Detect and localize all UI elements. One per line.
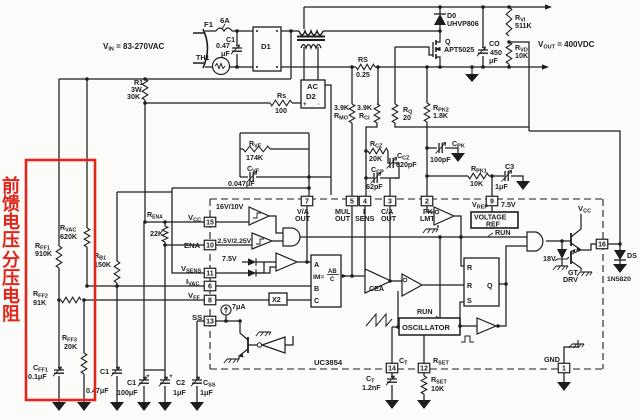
svg-text:AC: AC xyxy=(307,82,319,91)
wire AND2 out xyxy=(546,240,571,242)
ground CFF1 xyxy=(52,402,66,411)
oscillator block xyxy=(399,318,460,335)
svg-text:100pF: 100pF xyxy=(430,156,451,164)
ground PKLMT comp xyxy=(426,228,438,230)
wire pin4 internal xyxy=(364,206,366,272)
resistor RS 0.25 shunt xyxy=(356,64,375,70)
pin 10 ENA xyxy=(204,240,216,250)
capacitor C1 input 0.47uF xyxy=(232,48,242,51)
wire RENA top lead xyxy=(164,222,166,226)
wire pin5 internal xyxy=(351,206,353,276)
arrow mult out xyxy=(342,274,347,278)
resistor RMO 3.9K xyxy=(349,104,355,123)
wire CO top lead xyxy=(482,7,484,47)
svg-text:18V: 18V xyxy=(543,255,556,263)
junction CPK tap xyxy=(425,146,429,150)
svg-text:RUN: RUN xyxy=(495,229,510,237)
resistor RB1 150K xyxy=(114,261,120,283)
svg-text:62pF: 62pF xyxy=(366,183,383,191)
pin 9 VREF xyxy=(486,196,498,206)
svg-text:D1: D1 xyxy=(261,42,272,51)
junction CT node xyxy=(396,325,400,329)
wire RQ bottom to gate rail xyxy=(395,123,529,127)
wire gate drive rail xyxy=(529,131,620,244)
svg-text:DRV: DRV xyxy=(563,276,578,284)
capacitor C3 1uF xyxy=(505,171,508,181)
wire node to VAC sense bus xyxy=(290,31,292,79)
svg-text:1μF: 1μF xyxy=(200,389,213,397)
svg-text:CEA: CEA xyxy=(369,285,384,293)
svg-text:OSCILLATOR: OSCILLATOR xyxy=(402,323,450,332)
wire secondary right lead to AC D2 xyxy=(317,47,319,80)
svg-text:电: 电 xyxy=(2,211,20,232)
pin 4 ISENS xyxy=(359,196,371,206)
pin 11 VSENS xyxy=(204,268,216,278)
zener diode 18V xyxy=(557,249,567,259)
svg-text:5: 5 xyxy=(350,199,354,206)
svg-text:7.5V: 7.5V xyxy=(222,255,237,263)
wire VSENS vertical xyxy=(172,188,204,273)
wire RFF1 to FF1 node xyxy=(58,268,60,300)
svg-text:16: 16 xyxy=(598,242,606,249)
wire RCI jog xyxy=(366,123,377,196)
junction bus3 RVAC xyxy=(85,77,89,81)
capacitor C1b 100uF xyxy=(139,380,149,383)
svg-text:2: 2 xyxy=(425,199,429,206)
fuse F1 xyxy=(216,28,232,31)
svg-text:6A: 6A xyxy=(220,16,230,25)
svg-text:APT5025: APT5025 xyxy=(444,46,474,54)
bridge rectifier D1 xyxy=(253,27,281,71)
wire divider midpoint feed xyxy=(509,42,529,131)
wire RVAC top xyxy=(86,79,88,228)
svg-text:7μA: 7μA xyxy=(232,303,246,311)
wire RSET lead xyxy=(423,373,425,376)
wire RCI top xyxy=(377,67,378,104)
rs latch xyxy=(464,258,499,306)
svg-text:Q: Q xyxy=(487,282,493,290)
svg-text:ENA: ENA xyxy=(184,241,201,250)
junction run pklmt xyxy=(459,235,463,239)
svg-text:压: 压 xyxy=(2,268,20,288)
svg-text:7: 7 xyxy=(305,199,309,206)
svg-text:压: 压 xyxy=(2,230,20,250)
wire fuse to C1 node xyxy=(232,30,253,32)
resistor RFF3 20K xyxy=(81,353,87,374)
svg-text:20: 20 xyxy=(403,114,411,122)
wire pin7 vertical xyxy=(308,133,310,196)
ground RFF3 xyxy=(77,402,91,411)
svg-text:C: C xyxy=(314,297,319,305)
junction RS right xyxy=(376,65,380,69)
resistor Rs 100 xyxy=(270,100,292,106)
wire RENA bottom xyxy=(164,242,166,245)
wire pin7 internal xyxy=(306,206,308,262)
wire CVF row right xyxy=(256,176,309,178)
capacitor CPK 100pF xyxy=(439,143,442,153)
wire RUN rail xyxy=(300,236,527,238)
diode ref lower xyxy=(248,269,256,276)
wire secondary left lead to AC D2 xyxy=(303,47,305,80)
svg-text:10K: 10K xyxy=(431,385,445,393)
junction D0 bottom xyxy=(438,29,442,33)
pin 8 VFF xyxy=(204,295,216,305)
capacitor CCP 62pF xyxy=(374,173,377,183)
svg-text:174K: 174K xyxy=(246,154,264,162)
svg-text:+: + xyxy=(303,102,307,108)
ground C1a xyxy=(110,402,124,411)
svg-text:RUN: RUN xyxy=(417,308,432,316)
svg-text:100: 100 xyxy=(275,107,287,115)
svg-text:C1: C1 xyxy=(100,368,109,376)
wire TH1 to D1 xyxy=(229,66,253,68)
wire plug to fuse F1 xyxy=(210,30,216,32)
junction S osc xyxy=(458,324,462,328)
svg-text:511K: 511K xyxy=(515,22,533,30)
pin 2 PKLMT xyxy=(421,196,433,206)
wire RVAC to IAC line xyxy=(86,247,88,286)
wire SS internal xyxy=(216,320,240,322)
ground SS aux xyxy=(259,331,271,333)
wire D1 plus output to inductor xyxy=(281,30,299,32)
svg-text:15: 15 xyxy=(206,220,214,227)
svg-text:VOLTAGE: VOLTAGE xyxy=(474,215,507,222)
svg-text:150K: 150K xyxy=(94,261,112,269)
wire CVF row left xyxy=(240,176,248,178)
svg-text:·: · xyxy=(318,102,320,108)
resistor RFF1 910K xyxy=(56,246,62,268)
junction CEA out pin3 xyxy=(388,279,392,283)
wire C3 to gnd xyxy=(511,176,523,181)
transistor QP driver PNP xyxy=(570,251,572,264)
pin 5 MULOUT xyxy=(346,196,358,206)
junction DS node xyxy=(618,242,622,246)
wire RB1 top stub xyxy=(116,192,118,261)
svg-text:100μF: 100μF xyxy=(117,389,138,397)
svg-text:REF: REF xyxy=(486,222,500,229)
capacitor C2 1uF xyxy=(160,380,170,383)
wire CCZ down xyxy=(394,163,400,178)
wire current source stub xyxy=(225,315,227,321)
ground SS emitter xyxy=(227,358,239,360)
svg-text:电: 电 xyxy=(2,285,20,306)
wire loop left vertical xyxy=(239,133,241,177)
mosfet Q APT5025 xyxy=(436,31,440,42)
svg-text:馈: 馈 xyxy=(2,193,20,214)
svg-text:OUT: OUT xyxy=(295,215,311,223)
junction CCP tap xyxy=(364,176,368,180)
svg-text:7.5V: 7.5V xyxy=(501,201,516,209)
wire 7p5 to diodes xyxy=(242,261,248,263)
wire FF1 node down to CFF1 xyxy=(58,300,60,369)
junction RVAC IAC xyxy=(85,284,89,288)
wire CSS hang xyxy=(196,321,198,380)
wire 400V output bus xyxy=(304,6,546,8)
wire VCC collector xyxy=(580,214,582,218)
junction pin9 vref xyxy=(490,174,494,178)
ground C3 xyxy=(516,181,530,190)
svg-text:OUT: OUT xyxy=(381,215,397,223)
svg-text:阻: 阻 xyxy=(2,304,20,324)
svg-text:3.9K: 3.9K xyxy=(334,104,350,112)
wire CT external xyxy=(391,373,393,378)
svg-text:0.47μF: 0.47μF xyxy=(86,387,109,395)
svg-text:16V/10V: 16V/10V xyxy=(216,203,244,211)
pin 6 IVAC xyxy=(204,281,216,291)
wire UVLO to AND1 xyxy=(269,216,283,233)
svg-text:C3: C3 xyxy=(505,163,514,171)
wire CT node xyxy=(392,326,399,328)
ground CPK xyxy=(451,153,465,162)
svg-text:B: B xyxy=(314,285,319,293)
svg-text:Rs: Rs xyxy=(277,92,286,100)
svg-text:0.47: 0.47 xyxy=(216,42,230,50)
pin 12 RSET xyxy=(418,363,430,373)
resistor RFF2 91K xyxy=(61,297,81,303)
wire RSET gnd xyxy=(423,394,425,400)
ground C1b xyxy=(137,402,151,411)
svg-text:RS: RS xyxy=(358,56,368,64)
wire latch Q out xyxy=(499,283,506,285)
svg-text:Q: Q xyxy=(445,38,451,46)
svg-text:前: 前 xyxy=(2,175,20,196)
wire pin3 internal xyxy=(389,206,391,281)
junction VCC C1b xyxy=(143,220,147,224)
wire gnd pin down xyxy=(563,373,565,382)
pin 1 GND xyxy=(558,363,570,373)
ground chip flag xyxy=(572,343,584,345)
svg-text:3: 3 xyxy=(388,199,392,206)
svg-text:+: + xyxy=(169,373,173,380)
resistor R1 3W 30K xyxy=(142,79,148,100)
wire DS gnd lead xyxy=(619,260,621,264)
wire VSENS to VEA xyxy=(216,267,276,273)
junction RB1 IAC xyxy=(115,284,119,288)
resistor RSET 10K xyxy=(421,376,427,394)
wire run to latch R top xyxy=(461,237,464,266)
svg-text:30K: 30K xyxy=(127,93,141,101)
aux supply box AC D2 xyxy=(301,80,325,108)
svg-text:分: 分 xyxy=(2,250,20,270)
junction RS left xyxy=(350,65,354,69)
capacitor C1a 0.47uF xyxy=(112,370,122,373)
ground at bus2 xyxy=(471,67,473,74)
junction RPK2 top xyxy=(425,65,429,69)
svg-text:1.8K: 1.8K xyxy=(433,112,449,120)
wire CSS gnd xyxy=(196,386,198,402)
clock pulse symbol xyxy=(461,336,474,342)
wire pin9 internal xyxy=(491,206,493,212)
wire D1 minus output bus2 start xyxy=(281,66,352,68)
wire VAOUT stub to aux xyxy=(309,176,331,178)
diode D0 UHVP806 xyxy=(434,13,446,15)
junction q out xyxy=(504,282,508,286)
junction CO bottom xyxy=(481,65,485,69)
svg-text:μF: μF xyxy=(489,57,498,65)
resistor RPK1 10K xyxy=(468,173,489,179)
inverter SS xyxy=(257,343,261,347)
wire pin16 to DS node xyxy=(608,243,620,245)
junction RVD bottom xyxy=(507,65,511,69)
multiplier block xyxy=(311,255,341,307)
wire ena internal xyxy=(216,244,252,246)
svg-text:6: 6 xyxy=(208,284,212,291)
wire PWM out to latch R xyxy=(422,284,464,286)
svg-text:2.5V/2.25V: 2.5V/2.25V xyxy=(218,238,252,245)
svg-text:9: 9 xyxy=(490,199,494,206)
wire C1 bottom lead xyxy=(236,54,238,67)
ground RSET xyxy=(417,400,431,409)
svg-text:1N5820: 1N5820 xyxy=(607,276,631,283)
svg-text:R: R xyxy=(467,282,473,290)
capacitor CSS 1uF xyxy=(192,380,202,383)
svg-text:1.2nF: 1.2nF xyxy=(362,384,381,392)
resistor RVI 511K xyxy=(506,7,512,36)
svg-text:1μF: 1μF xyxy=(173,389,186,397)
wire CPK to gnd xyxy=(445,148,458,153)
wire CT gnd xyxy=(391,385,393,400)
and gate A1 (UVLO/ENA) xyxy=(283,228,300,246)
wire comp to pin3 xyxy=(389,178,391,196)
ground CSS xyxy=(190,402,204,411)
wire plug to TH1 xyxy=(211,66,212,68)
svg-text:UC3854: UC3854 xyxy=(314,358,343,367)
capacitor CVF 0.047uF xyxy=(250,172,253,182)
svg-text:D0: D0 xyxy=(447,12,456,20)
wire osc to buffer xyxy=(460,325,477,327)
wire CFF1 to gnd xyxy=(58,376,60,402)
wire RFF3 to gnd xyxy=(83,374,85,402)
junction RCZ tap xyxy=(364,149,368,153)
wire bus2 right segment xyxy=(375,66,543,68)
AC plug symbol xyxy=(203,29,208,68)
wire Rs to AC D2 box xyxy=(292,102,301,104)
UC3854 IC dashed boundary xyxy=(210,198,603,200)
resistor RPK2 1.8K xyxy=(424,103,430,122)
wire RQ top xyxy=(394,47,396,104)
D1 terminal marks xyxy=(256,30,258,32)
wire inductor to switch node xyxy=(323,30,440,32)
pin 3 CAOUT xyxy=(384,196,396,206)
wire bus3 rectified VAC sense xyxy=(59,78,291,80)
wire VEA out to multiplier xyxy=(297,261,311,263)
ground DS xyxy=(613,264,627,273)
sawtooth waveform symbol xyxy=(366,314,392,326)
junction Q source bus2 xyxy=(438,65,442,69)
junction gnd bus2 xyxy=(470,65,474,69)
wire RPK2 to pin2 xyxy=(426,122,428,196)
junction Rs tap xyxy=(143,101,147,105)
svg-text:14: 14 xyxy=(388,366,396,373)
resistor RENA 22K xyxy=(162,226,168,242)
wire RVF leads xyxy=(240,148,243,150)
run pointer tick xyxy=(488,233,493,237)
wire emitters node xyxy=(581,244,596,250)
run osc tick xyxy=(436,316,440,319)
svg-text:LMT: LMT xyxy=(420,215,435,223)
svg-text:450: 450 xyxy=(490,49,502,57)
wire VCC line to pin15 xyxy=(145,221,204,223)
svg-text:μF: μF xyxy=(221,50,230,58)
wire CEA out to PWM xyxy=(391,280,402,282)
comparator PKLMT xyxy=(434,207,454,225)
junction zener tap xyxy=(560,239,564,243)
svg-text:1: 1 xyxy=(562,366,566,373)
wire zener lead xyxy=(561,241,563,249)
junction VSENS rail pin7 xyxy=(307,186,311,190)
svg-text:C: C xyxy=(330,277,335,283)
svg-text:R: R xyxy=(467,264,473,272)
svg-text:0.1μF: 0.1μF xyxy=(28,373,47,381)
junction CO top xyxy=(481,5,485,9)
buffer clock xyxy=(477,318,496,334)
resistor RQ 20 gate xyxy=(392,104,398,123)
svg-text:8: 8 xyxy=(208,298,212,305)
wire RPK1 to C3 node xyxy=(489,175,504,177)
svg-text:12: 12 xyxy=(420,366,428,373)
svg-text:4: 4 xyxy=(363,199,367,206)
wire VFF line xyxy=(84,299,204,301)
ground zener GT DRV xyxy=(556,265,568,267)
wire PWM ramp input xyxy=(397,291,399,327)
wire mult out to CEA xyxy=(341,275,365,277)
transistor SS discharge xyxy=(247,337,249,353)
svg-text:0.047μF: 0.047μF xyxy=(228,180,255,188)
svg-text:DS: DS xyxy=(627,252,637,260)
wire C1a to gnd xyxy=(116,376,118,402)
junction at 291,31 xyxy=(289,29,293,33)
pin 13 SS xyxy=(204,316,216,326)
arrowhead output bus xyxy=(545,4,552,9)
svg-text:GND: GND xyxy=(544,356,560,364)
wire C1a hang xyxy=(116,286,118,369)
junction SS collector xyxy=(238,319,242,323)
wire bus down to inductor left xyxy=(303,7,305,29)
junction pin7 internal xyxy=(305,260,309,264)
wire inverter to base xyxy=(248,344,257,346)
X2 block xyxy=(269,293,287,305)
junction run osc tap xyxy=(438,235,442,239)
wire RFF1 chain top xyxy=(58,79,60,246)
wire CO bottom lead xyxy=(482,56,484,67)
wire RPK2 top xyxy=(426,67,428,103)
wire run to oscillator xyxy=(439,237,441,318)
wire DS lead xyxy=(619,244,621,250)
wire C1 top lead xyxy=(236,31,238,45)
capacitor CCZ 620pF xyxy=(390,158,393,168)
capacitor CT 1.2nF xyxy=(387,379,397,382)
wire RB1 bottom xyxy=(116,283,118,286)
wire RVD to bus2 xyxy=(508,64,510,67)
wire pin2 internal xyxy=(427,206,434,212)
wire AC D2 output xyxy=(325,85,331,195)
wire X2 to mult xyxy=(287,299,311,301)
op-amp CEA current error amp xyxy=(365,269,391,293)
wire D0 anode lead xyxy=(439,25,441,31)
svg-text:UHVP806: UHVP806 xyxy=(447,20,479,28)
svg-text:10K: 10K xyxy=(470,180,484,188)
wire IAC line to pin6 xyxy=(87,285,204,287)
junction divider midpoint xyxy=(507,40,511,44)
wire VSENS stub RB1 xyxy=(117,191,172,193)
svg-text:620K: 620K xyxy=(60,233,78,241)
junction ss cs xyxy=(224,319,228,323)
wire vcc internal xyxy=(216,221,249,223)
junction C1 top xyxy=(235,29,239,33)
wire Q gate xyxy=(395,47,433,55)
svg-text:1μF: 1μF xyxy=(495,183,508,191)
svg-text:C1: C1 xyxy=(127,379,136,387)
